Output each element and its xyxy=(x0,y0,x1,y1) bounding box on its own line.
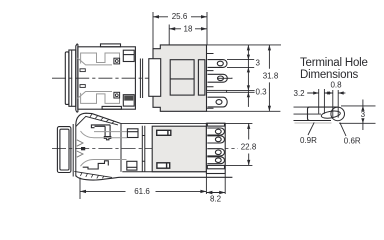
hole xyxy=(215,158,221,163)
ext 8.2 lines xyxy=(206,174,225,194)
collar lines xyxy=(140,59,142,99)
arrows 3 xyxy=(361,106,364,123)
hole xyxy=(215,137,221,142)
lever bottom outer xyxy=(76,176,233,180)
lever bottom inner xyxy=(74,171,112,177)
dim 8.2 xyxy=(206,192,225,194)
svg-text:0.9R: 0.9R xyxy=(300,136,317,145)
mech box upper xyxy=(114,58,120,64)
mech box lower xyxy=(114,92,120,98)
svg-text:18: 18 xyxy=(184,25,193,34)
top tab xyxy=(101,44,121,47)
hole T3 xyxy=(216,100,222,105)
dim line 31.8 vertical xyxy=(268,45,270,111)
terminal block bottom xyxy=(206,123,225,173)
lever front edges xyxy=(73,124,76,177)
arrows 31.8 xyxy=(268,45,271,111)
terminal T2 xyxy=(208,74,228,82)
top tab xyxy=(207,123,224,126)
button cap xyxy=(65,52,69,105)
pin guide line xyxy=(94,131,127,133)
bottom hatch xyxy=(80,173,104,179)
dim 61.6 xyxy=(80,190,206,192)
label 22.8 xyxy=(238,141,259,152)
bottom face ext xyxy=(207,110,281,112)
arrows 61.6 xyxy=(80,190,206,193)
svg-text:25.6: 25.6 xyxy=(172,12,188,21)
lever right edge xyxy=(120,123,122,171)
bezel ring xyxy=(69,50,76,106)
dim line 25.6 xyxy=(153,16,207,18)
arrows 0.3 xyxy=(247,85,250,97)
leader 0.9R xyxy=(308,122,314,135)
hole T1 xyxy=(217,61,223,66)
latch pin bar xyxy=(91,125,110,137)
bottom recess xyxy=(102,106,121,109)
svg-text:31.8: 31.8 xyxy=(263,72,279,81)
dim 3 vertical xyxy=(362,100,364,131)
lever dome xyxy=(76,113,121,124)
box lower-left xyxy=(127,161,137,170)
slot upper w divider xyxy=(157,130,171,135)
leader 0.6R xyxy=(340,122,346,136)
arrows 18 xyxy=(169,27,207,30)
svg-text:3: 3 xyxy=(256,58,261,67)
collar lines bottom xyxy=(142,126,145,172)
ext 61.6 left xyxy=(79,178,81,200)
top long line xyxy=(121,122,253,124)
guide curve lower (gray) xyxy=(81,160,127,167)
svg-text:8.2: 8.2 xyxy=(210,195,222,204)
guide curve upper (gray) xyxy=(81,131,128,138)
dim 22.8 vertical xyxy=(248,123,250,165)
T3 bottom view xyxy=(207,149,224,156)
plunger mech upper (gray) xyxy=(78,53,120,65)
latch arm lower xyxy=(83,161,109,169)
hole xyxy=(215,150,221,155)
top face ext xyxy=(207,44,282,46)
svg-text:61.6: 61.6 xyxy=(134,187,150,196)
black square xyxy=(81,147,85,150)
terminal tab 0.3 xyxy=(207,90,227,92)
arrows 22.8 xyxy=(247,123,250,165)
mech circle upper xyxy=(115,60,118,63)
bezel outer bottom xyxy=(57,127,71,173)
arrows 8.2 xyxy=(206,191,225,194)
terminal T1 xyxy=(208,60,228,68)
inner box big xyxy=(170,60,194,95)
lever dome inner xyxy=(76,116,118,126)
arrows 3.2 xyxy=(307,92,333,94)
centerline xyxy=(52,77,233,79)
arrows 3 xyxy=(247,45,250,73)
latch pin foot xyxy=(104,137,111,140)
ext 0.8 xyxy=(333,90,338,118)
wave upper xyxy=(77,140,83,146)
box upper-left xyxy=(127,129,138,138)
dome hatch xyxy=(90,114,114,123)
T2 centerline stub xyxy=(217,77,232,79)
svg-text:0.8: 0.8 xyxy=(330,81,342,90)
ext line right xyxy=(206,12,208,45)
hole T2 xyxy=(218,76,224,81)
mech circle lower xyxy=(115,94,118,97)
bottom tab xyxy=(207,165,224,168)
body outline xyxy=(78,47,135,109)
T2 bottom view xyxy=(207,136,224,143)
ext line 18 left xyxy=(168,25,170,45)
lamp box lower xyxy=(123,95,134,106)
wave lower xyxy=(77,151,83,157)
ext 3.2 xyxy=(319,89,325,114)
T4 bottom view xyxy=(207,157,224,164)
mounting ring xyxy=(149,59,161,97)
socket block bottom shaded xyxy=(152,126,206,172)
slot upper xyxy=(80,69,85,72)
svg-text:22.8: 22.8 xyxy=(241,143,257,152)
svg-text:3.2: 3.2 xyxy=(294,89,306,98)
svg-text:0.3: 0.3 xyxy=(256,87,268,96)
terminal T3 xyxy=(208,97,228,107)
svg-text:Terminal Hole: Terminal Hole xyxy=(300,57,368,69)
socket block shaded xyxy=(153,45,207,111)
bezel flange xyxy=(76,44,78,112)
tab 0.3 ext lines xyxy=(227,90,255,92)
plate line faint xyxy=(295,122,332,124)
bezel inner bottom xyxy=(60,129,69,170)
ext 3 right xyxy=(339,106,375,123)
slot lower xyxy=(80,85,85,88)
ext line 25.6 left xyxy=(152,12,154,49)
dim line 3 vertical xyxy=(247,45,249,107)
ext 22.8 bottom xyxy=(225,164,253,166)
block bottom line xyxy=(122,171,206,173)
arrows 25.6 xyxy=(153,15,207,18)
corner circle 0.6R xyxy=(331,107,345,121)
T1 bottom view xyxy=(207,128,224,135)
svg-text:Dimensions: Dimensions xyxy=(300,69,359,81)
svg-text:3: 3 xyxy=(361,110,366,119)
arrows 0.8 xyxy=(338,92,345,94)
comb lines xyxy=(207,54,214,109)
lamp box upper xyxy=(123,50,134,61)
svg-text:0.6R: 0.6R xyxy=(344,137,361,146)
slot obround xyxy=(308,107,339,120)
plate lines left xyxy=(294,107,322,120)
slot lower w divider xyxy=(157,163,170,168)
centerline bottom xyxy=(52,148,257,150)
T1 edge ext lines xyxy=(227,60,254,68)
dim line 18 xyxy=(169,28,207,30)
hole xyxy=(215,129,221,134)
inner box narrow xyxy=(198,60,205,95)
inner hole ellipse xyxy=(321,110,341,120)
plunger mech lower (gray) xyxy=(78,92,120,104)
